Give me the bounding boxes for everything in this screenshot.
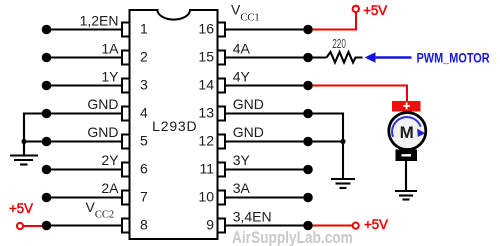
svg-text:+5V: +5V xyxy=(9,201,33,216)
svg-text:GND: GND xyxy=(233,96,264,112)
svg-text:15: 15 xyxy=(198,49,214,65)
svg-text:GND: GND xyxy=(233,124,264,140)
svg-text:PWM_MOTOR: PWM_MOTOR xyxy=(417,50,490,66)
svg-text:10: 10 xyxy=(198,189,214,205)
svg-text:2: 2 xyxy=(140,49,148,65)
svg-text:L293D: L293D xyxy=(152,118,197,134)
svg-text:13: 13 xyxy=(198,105,214,121)
svg-text:6: 6 xyxy=(140,161,148,177)
svg-text:3A: 3A xyxy=(233,180,251,196)
svg-text:1Y: 1Y xyxy=(101,69,119,85)
svg-text:3: 3 xyxy=(140,77,148,93)
svg-text:+5V: +5V xyxy=(363,3,387,18)
svg-text:2Y: 2Y xyxy=(101,152,119,168)
svg-text:AirSupplyLab.com: AirSupplyLab.com xyxy=(232,229,353,246)
svg-text:4Y: 4Y xyxy=(233,69,251,85)
svg-text:VCC2: VCC2 xyxy=(86,199,115,221)
svg-text:11: 11 xyxy=(199,161,214,177)
svg-text:1: 1 xyxy=(140,21,148,37)
svg-text:4A: 4A xyxy=(233,41,251,57)
svg-text:1,2EN: 1,2EN xyxy=(80,13,119,29)
svg-text:2A: 2A xyxy=(101,180,119,196)
svg-text:14: 14 xyxy=(198,77,214,93)
svg-text:16: 16 xyxy=(198,21,214,37)
svg-text:3,4EN: 3,4EN xyxy=(233,209,272,225)
svg-text:+5V: +5V xyxy=(364,217,388,232)
svg-text:5: 5 xyxy=(140,133,148,149)
svg-text:12: 12 xyxy=(198,133,214,149)
svg-text:GND: GND xyxy=(87,96,118,112)
svg-text:9: 9 xyxy=(206,217,214,233)
svg-text:4: 4 xyxy=(140,105,148,121)
svg-text:8: 8 xyxy=(140,217,148,233)
svg-text:3Y: 3Y xyxy=(233,152,251,168)
svg-text:VCC1: VCC1 xyxy=(231,2,260,24)
svg-text:7: 7 xyxy=(140,189,148,205)
svg-text:M: M xyxy=(400,123,414,142)
svg-text:1A: 1A xyxy=(101,41,119,57)
svg-text:GND: GND xyxy=(87,124,118,140)
svg-text:220: 220 xyxy=(332,37,346,51)
